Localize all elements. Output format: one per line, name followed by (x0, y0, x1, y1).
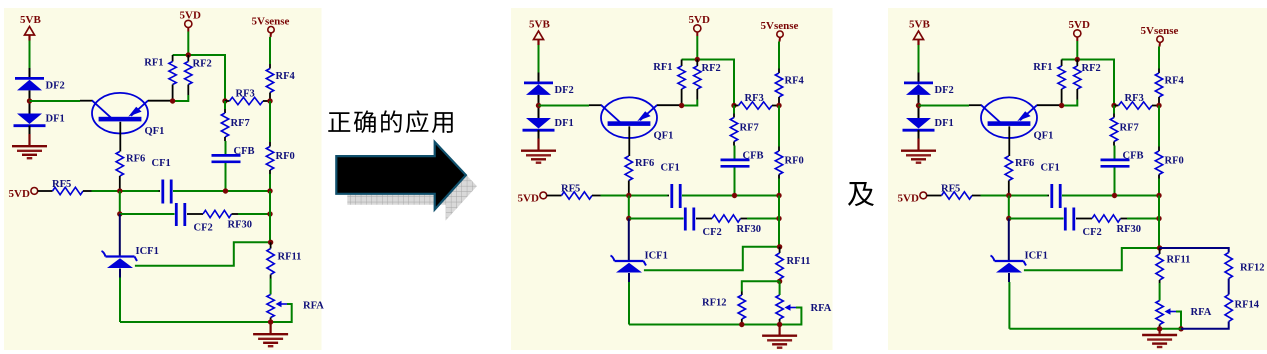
caption text 及 (848, 182, 874, 206)
svg-text:CF1: CF1 (1041, 163, 1060, 174)
wire left column to ICF1 (119, 214, 121, 256)
resistor RF1 (panel 2) (681, 60, 683, 67)
svg-text:RF11: RF11 (787, 256, 811, 267)
wire down to RF0 (778, 106, 780, 147)
node CFB row1 junction (223, 188, 228, 193)
node emitter junction (1059, 103, 1064, 108)
svg-text:DF2: DF2 (555, 85, 574, 96)
big arrow shadow (347, 153, 477, 221)
wire CFB to row1 (225, 163, 227, 191)
svg-text:RF1: RF1 (1033, 62, 1052, 73)
node row1 left junction (1006, 193, 1011, 198)
node RF3/RF4 junction (1156, 103, 1161, 108)
capacitor CF2 (panel 3) (1064, 208, 1067, 231)
wire RF11 to RFA (panel 2) (779, 281, 781, 295)
svg-text:RF3: RF3 (745, 93, 764, 104)
wire ICF1 bottom lead (1008, 273, 1010, 282)
wire ICF1 down to bottom rail (panel 3) (1008, 282, 1010, 329)
svg-text:CF1: CF1 (661, 163, 680, 174)
wire RFA bottom lead (panel 3) (1159, 325, 1161, 329)
wire diode node to QF1 collector (30, 100, 81, 102)
wire RFA wiper loop (panel 3) (1176, 312, 1181, 329)
resistor RF30 (panel 3) (1076, 218, 1092, 220)
svg-text:RF2: RF2 (193, 59, 212, 70)
wire 5VB to DF2 (538, 45, 540, 73)
wire down to RF0 (269, 101, 271, 142)
wire RF6 to row1 (119, 176, 121, 191)
wire right column row1-row2 (1158, 196, 1160, 219)
wire right column down (panel 2) (778, 219, 780, 247)
resistor RF5 (panel 2) (547, 195, 562, 197)
potentiometer RFA (panel 2) (776, 295, 783, 319)
resistor RF30 (panel 2) (696, 218, 712, 220)
node RF11 bottom junction (panel 2) (777, 279, 782, 284)
wire ICF1 bottom lead (628, 273, 630, 282)
resistor RF14 (panel 3) (1225, 295, 1232, 322)
wire QF1 base lead (119, 122, 121, 152)
resistor RF0 (panel 1) (269, 142, 271, 147)
wire right column to RF11 (panel 1) (269, 214, 271, 242)
resistor RF12 (panel 2) (741, 292, 743, 296)
wire bottom rail (panel 2) (629, 324, 780, 326)
wire 5Vsense down (778, 42, 780, 69)
wire left column to ICF1 (1008, 219, 1010, 261)
wire row2 right (1127, 218, 1159, 220)
wire row2 right (238, 213, 270, 215)
svg-text:5VB: 5VB (20, 14, 41, 26)
svg-text:ICF1: ICF1 (645, 251, 668, 262)
diode DF1 (panel 2) (526, 118, 551, 129)
resistor RF1 (panel 3) (1061, 60, 1063, 67)
svg-text:RF12: RF12 (702, 298, 727, 309)
svg-text:CFB: CFB (743, 151, 764, 162)
wire RF6 to row1 (628, 181, 630, 196)
wire right column down (panel 3) (1158, 219, 1160, 249)
wire QF1 base lead (1008, 126, 1010, 156)
diode DF2 (panel 2) (524, 82, 553, 85)
wire RFA bottom lead (panel 2) (779, 319, 781, 325)
wire RF11 to RFA (panel 1) (270, 279, 272, 295)
svg-text:5VB: 5VB (529, 19, 550, 31)
svg-text:5VB: 5VB (909, 19, 930, 31)
wire diode node to QF1 collector (919, 105, 970, 107)
svg-text:DF1: DF1 (555, 118, 574, 129)
wire DF1 to ground (538, 130, 540, 140)
wire RF7 to CFB (1114, 146, 1116, 159)
wire right column row1-row2 (269, 191, 271, 214)
capacitor CF1 (panel 3) (1048, 195, 1050, 197)
resistor RF4 (panel 2) (778, 69, 780, 74)
diode DF2 (panel 3) (904, 82, 933, 85)
node row2 right junction (267, 211, 272, 216)
node emitter junction (679, 103, 684, 108)
diode DF1 (panel 1) (17, 114, 42, 125)
wire left column row1-row2 (1008, 196, 1010, 219)
wire left column row1-row2 (628, 196, 630, 219)
wire RF0 to row1 (269, 174, 271, 191)
svg-text:5Vsense: 5Vsense (252, 15, 290, 27)
wire row2 right (747, 218, 779, 220)
resistor RF12 (panel 3) (1225, 253, 1232, 279)
ground below DF1 (panel 2) (537, 139, 539, 150)
wire ICF1 down to bottom rail (panel 2) (628, 282, 630, 325)
wire DF2 to DF1 (29, 90, 31, 113)
wire RF11 bottom to RF12 (panel 2) (742, 281, 780, 291)
wire DF2 to DF1 (538, 95, 540, 118)
wire QF1 emitter to RF1 node (657, 104, 682, 106)
wire RF12 to RF14 navy (panel 3) (1228, 279, 1230, 295)
node row1 right junction (1156, 193, 1161, 198)
svg-text:RF7: RF7 (231, 118, 250, 129)
resistor RF7 (panel 3) (1113, 106, 1115, 114)
svg-text:RF3: RF3 (236, 89, 255, 100)
node row2 left junction (117, 211, 122, 216)
wire QF1 emitter to RF1 node (1037, 104, 1062, 106)
shunt regulator ICF1 (panel 3) (995, 260, 1024, 262)
wire row1 left (601, 195, 668, 197)
wire top rail (1062, 59, 1114, 61)
wire DF1 to ground (918, 130, 920, 140)
svg-text:RF11: RF11 (278, 252, 302, 263)
capacitor CF2 (panel 1) (175, 203, 178, 226)
wire RF2 bottom elbow (173, 95, 189, 101)
svg-text:RF4: RF4 (1165, 76, 1185, 87)
resistor RF0 (panel 2) (778, 147, 780, 152)
node RF3/RF4 junction (776, 103, 781, 108)
resistor RF2 (panel 1) (187, 55, 189, 62)
svg-text:RF14: RF14 (1235, 300, 1260, 311)
node ground junction (panel 1) (268, 319, 273, 324)
resistor RF6 (panel 1) (116, 152, 123, 177)
node RF11 top junction (panel 2) (777, 244, 782, 249)
wire 5VD down (1076, 41, 1078, 60)
svg-text:5Vsense: 5Vsense (761, 20, 799, 32)
capacitor CFB (panel 3) (1101, 159, 1130, 162)
node row2 left junction (626, 216, 631, 221)
svg-text:RF3: RF3 (1125, 93, 1144, 104)
node row2 left junction (1006, 216, 1011, 221)
wire row2 left (120, 213, 175, 215)
svg-text:RF4: RF4 (785, 76, 805, 87)
wire ICF1 down to bottom rail (panel 1) (119, 278, 121, 323)
svg-text:CF2: CF2 (703, 227, 722, 238)
wire top rail (682, 59, 734, 61)
wire ICF1 to RF11 step (panel 2) (644, 247, 780, 270)
wire rail to RF7 column (1113, 59, 1115, 106)
svg-text:DF2: DF2 (46, 81, 65, 92)
wire left column to ICF1 (628, 219, 630, 261)
wire ICF1 bottom lead (119, 269, 121, 278)
wire RF0 to row1 (778, 179, 780, 196)
svg-text:RF0: RF0 (276, 151, 295, 162)
svg-text:RF1: RF1 (653, 62, 672, 73)
resistor RF11 (panel 3) (1159, 248, 1161, 254)
svg-text:RF6: RF6 (1015, 158, 1034, 169)
svg-text:RF0: RF0 (785, 156, 804, 167)
wire diode node to QF1 collector (539, 105, 590, 107)
wire RF12 top rail navy (panel 3) (1160, 248, 1229, 253)
wire row1 left (981, 195, 1048, 197)
wire row1 right (682, 195, 779, 197)
node CFB row1 junction (1112, 193, 1117, 198)
potentiometer RFA (panel 3) (1156, 301, 1163, 325)
wire RF0 to row1 (1158, 179, 1160, 196)
svg-text:ICF1: ICF1 (136, 246, 159, 257)
node diode junction (536, 103, 541, 108)
wire RF7 to CFB (734, 146, 736, 159)
wire right column row1-row2 (778, 196, 780, 219)
wire 5VB to DF2 (918, 45, 920, 73)
svg-text:RFA: RFA (811, 303, 832, 314)
wire RF6 to row1 (1008, 181, 1010, 196)
wire left column row1-row2 (119, 191, 121, 214)
wire ICF1 to RF11 step (panel 1) (135, 242, 271, 265)
node row1 left junction (117, 188, 122, 193)
ground bottom (panel 1) (270, 322, 272, 333)
node emitter junction (170, 98, 175, 103)
wire row1 left (92, 190, 159, 192)
wire ICF1 to RF11 step (panel 3) (1024, 248, 1160, 270)
diode DF2 (panel 1) (15, 77, 44, 80)
svg-text:5VD: 5VD (180, 9, 201, 21)
node 5VD rail junction (186, 52, 191, 57)
wire 5VD down (696, 36, 698, 60)
wire CFB to row1 (1114, 168, 1116, 196)
node diode junction (916, 103, 921, 108)
wire RF2 bottom elbow (1062, 100, 1078, 106)
wire 5Vsense down (269, 37, 271, 64)
node row2 right junction (776, 216, 781, 221)
resistor RF4 (panel 1) (269, 64, 271, 69)
capacitor CF1 (panel 1) (159, 190, 161, 192)
ground bottom (panel 2) (778, 325, 780, 335)
svg-text:RF6: RF6 (126, 154, 145, 165)
svg-text:5VD: 5VD (9, 188, 30, 200)
svg-text:RF30: RF30 (737, 224, 762, 235)
caption text 正确的应用 (328, 110, 452, 133)
resistor RF5 (panel 1) (38, 190, 53, 192)
svg-text:RF5: RF5 (52, 179, 71, 190)
panel 1 schematic background (4, 8, 322, 350)
resistor RF0 (panel 3) (1158, 147, 1160, 152)
wire down to RF0 (1158, 106, 1160, 147)
svg-text:RF11: RF11 (1167, 255, 1191, 266)
resistor RF11 (panel 2) (779, 247, 781, 253)
wire QF1 base lead (628, 126, 630, 156)
node RF12 bottom junction (panel 2) (739, 322, 744, 327)
wire RF11 to RFA (panel 3) (1159, 283, 1161, 301)
resistor RF4 (panel 3) (1158, 69, 1160, 74)
wire 5Vsense down (1158, 47, 1160, 69)
wire DF2 to DF1 (918, 95, 920, 118)
node row1 left junction (626, 193, 631, 198)
svg-text:ICF1: ICF1 (1025, 251, 1048, 262)
transistor QF1 (panel 3) (981, 97, 1037, 138)
svg-text:RF30: RF30 (1117, 224, 1142, 235)
transistor QF1 (panel 2) (601, 97, 657, 138)
svg-text:CF2: CF2 (1083, 227, 1102, 238)
ground below DF1 (panel 3) (917, 139, 919, 150)
wire 5VB to DF2 (29, 41, 31, 69)
node row1 right junction (267, 188, 272, 193)
node row1 right junction (776, 193, 781, 198)
panel 2 schematic background (511, 8, 833, 350)
svg-text:RF2: RF2 (702, 63, 721, 74)
svg-text:RF7: RF7 (1120, 123, 1139, 134)
wire rail to RF7 column (224, 54, 226, 101)
node ground junction (panel 2) (777, 322, 782, 327)
svg-text:RF4: RF4 (276, 71, 296, 82)
node RF11 top junction (panel 1) (268, 240, 273, 245)
capacitor CFB (panel 2) (721, 159, 750, 162)
svg-text:CFB: CFB (1123, 151, 1144, 162)
svg-text:5Vsense: 5Vsense (1141, 25, 1179, 37)
wire CFB to row1 (734, 168, 736, 196)
wire DF1 to ground (29, 126, 31, 136)
capacitor CF1 (panel 2) (668, 195, 670, 197)
wire QF1 emitter to RF1 node (148, 100, 173, 102)
node 5VD rail junction (1075, 57, 1080, 62)
resistor RF7 (panel 1) (224, 101, 226, 109)
wire row1 right (1062, 195, 1159, 197)
resistor RF6 (panel 2) (625, 156, 632, 181)
svg-text:QF1: QF1 (654, 131, 674, 142)
node row2 right junction (1156, 216, 1161, 221)
svg-text:DF1: DF1 (46, 114, 65, 125)
wire RF14 bottom navy (panel 3) (1181, 322, 1229, 329)
svg-text:RF5: RF5 (941, 184, 960, 195)
capacitor CF2 (panel 2) (684, 208, 687, 231)
shunt regulator ICF1 (panel 2) (615, 260, 644, 262)
wire RFA wiper loop (panel 1) (272, 304, 292, 322)
resistor RF2 (panel 3) (1076, 60, 1078, 67)
svg-text:5VD: 5VD (518, 193, 539, 205)
capacitor CFB (panel 1) (212, 154, 241, 157)
svg-text:RF1: RF1 (144, 58, 163, 69)
node CFB row1 junction (732, 193, 737, 198)
svg-text:RFA: RFA (303, 301, 324, 312)
wire row1 right (173, 190, 270, 192)
node RF3/RF4 junction (267, 98, 272, 103)
node RFA wiper junction (panel 3) (1178, 326, 1183, 331)
wire RFA bottom lead (panel 1) (270, 318, 272, 323)
transistor QF1 (panel 1) (92, 93, 148, 134)
ground bottom (panel 3) (1158, 329, 1160, 334)
resistor RF30 (panel 1) (187, 213, 203, 215)
svg-text:RF7: RF7 (740, 123, 759, 134)
svg-text:RF2: RF2 (1082, 63, 1101, 74)
resistor RF1 (panel 1) (172, 55, 174, 62)
svg-text:RF6: RF6 (635, 158, 654, 169)
wire row2 left (1009, 218, 1064, 220)
resistor RF6 (panel 3) (1005, 156, 1012, 181)
svg-text:RF12: RF12 (1240, 263, 1265, 274)
potentiometer RFA (panel 1) (267, 295, 274, 318)
wire top rail (173, 54, 225, 56)
svg-text:RF30: RF30 (228, 220, 253, 231)
wire bottom rail (panel 1) (120, 321, 271, 323)
node ground junction (panel 3) (1157, 326, 1162, 331)
svg-text:QF1: QF1 (1034, 131, 1054, 142)
svg-text:CFB: CFB (234, 146, 255, 157)
svg-text:5VD: 5VD (689, 14, 710, 26)
svg-text:RF0: RF0 (1165, 156, 1184, 167)
svg-text:RFA: RFA (1191, 307, 1212, 318)
diode DF1 (panel 3) (906, 118, 931, 129)
wire RF2 bottom elbow (682, 100, 698, 106)
shunt regulator ICF1 (panel 1) (106, 255, 135, 257)
resistor RF3 (panel 2) (731, 103, 736, 108)
node RF11 top junction (panel 3) (1157, 245, 1162, 250)
svg-text:5VD: 5VD (898, 193, 919, 205)
panel 3 schematic background (888, 8, 1267, 350)
resistor RF3 (panel 3) (1111, 103, 1116, 108)
wire bottom rail (panel 3) (1009, 328, 1181, 330)
wire rail to RF7 column (733, 59, 735, 106)
resistor RF11 (panel 1) (270, 242, 272, 248)
ground below DF1 (panel 1) (28, 134, 30, 145)
svg-text:DF2: DF2 (935, 85, 954, 96)
big arrow (336, 142, 466, 210)
svg-text:CF2: CF2 (194, 223, 213, 234)
node 5VD rail junction (695, 57, 700, 62)
svg-text:RF5: RF5 (561, 184, 580, 195)
wire RFA wiper loop (panel 2) (781, 308, 801, 325)
wire 5VD down (187, 32, 189, 56)
svg-text:CF1: CF1 (152, 158, 171, 169)
resistor RF2 (panel 2) (696, 60, 698, 67)
resistor RF3 (panel 1) (222, 98, 227, 103)
node diode junction (27, 98, 32, 103)
svg-text:5VD: 5VD (1069, 19, 1090, 31)
wire RF7 to CFB (225, 141, 227, 154)
svg-text:QF1: QF1 (145, 126, 165, 137)
svg-text:DF1: DF1 (935, 118, 954, 129)
resistor RF7 (panel 2) (733, 106, 735, 114)
wire row2 left (629, 218, 684, 220)
resistor RF5 (panel 3) (927, 195, 942, 197)
